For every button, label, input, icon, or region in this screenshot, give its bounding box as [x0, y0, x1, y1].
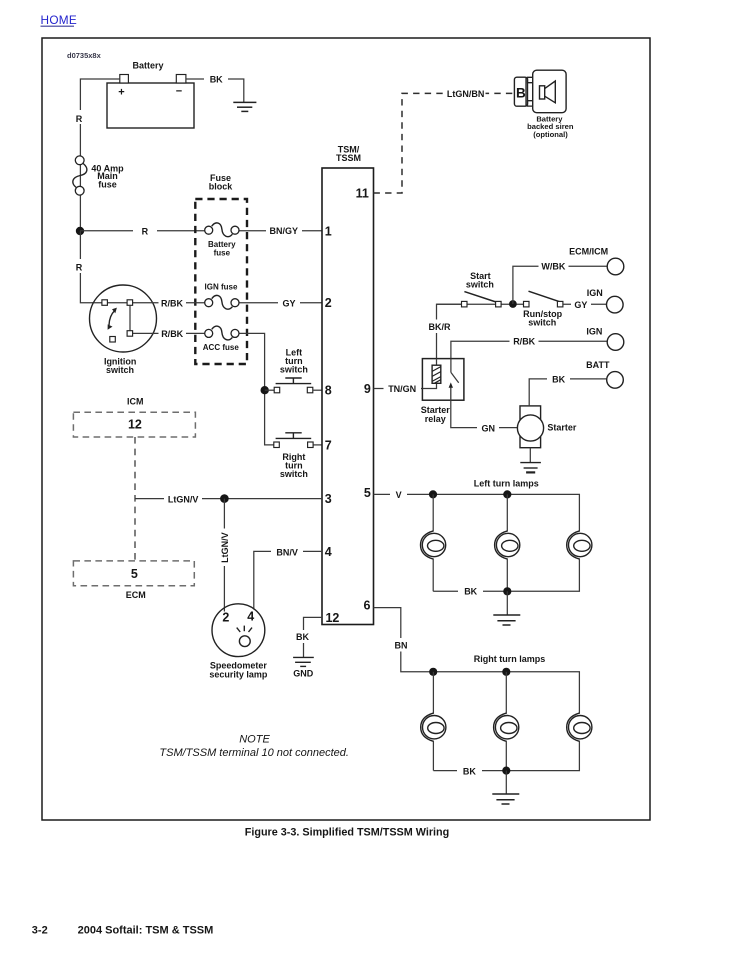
siren speaker icon	[540, 81, 556, 103]
speedometer body	[212, 604, 265, 657]
relay coil	[432, 365, 441, 383]
svg-text:−: −	[176, 86, 182, 98]
svg-text:GY: GY	[574, 300, 587, 310]
wire ACC fuse to turn switches node	[238, 333, 274, 445]
label Battery fuse	[208, 240, 236, 257]
dashed wire pin 11 to siren (LtGN/BN)	[374, 93, 515, 193]
wire drop to right lamp 1	[432, 672, 434, 714]
svg-text:12: 12	[128, 418, 142, 432]
svg-text:6: 6	[364, 598, 371, 612]
label R/BK relay	[510, 335, 539, 349]
left turn lamp 3	[567, 531, 592, 559]
svg-text:ECM: ECM	[126, 590, 146, 600]
wire BN TSM pin 6 to right lamp rail	[374, 608, 434, 672]
svg-text:2: 2	[222, 610, 229, 624]
svg-text:+: +	[118, 87, 124, 99]
svg-text:R: R	[76, 262, 83, 272]
svg-text:11: 11	[356, 186, 369, 200]
starter relay box	[422, 359, 464, 401]
label BK/R	[425, 320, 453, 334]
junction node right rail 2	[502, 668, 510, 676]
diagram border frame	[42, 38, 650, 820]
svg-text:12: 12	[325, 611, 339, 625]
junction node LtGN/V	[220, 494, 229, 503]
security lamp bulb with rays	[237, 626, 252, 647]
fuse F4 ACC fuse	[205, 326, 239, 340]
wire IGN fuse to TSM pin 2 (GY)	[238, 302, 322, 304]
svg-text:3-2: 3-2	[32, 924, 48, 936]
wire BK/R start switch to relay coil	[437, 304, 462, 358]
junction node start/run to W/BK	[509, 300, 517, 308]
ignition switch wire through terminals (R/BK to IGN fuse)	[105, 302, 206, 304]
svg-text:7: 7	[325, 438, 332, 452]
right turn switch terminal right	[308, 442, 314, 448]
wire R/BK relay contact to IGN terminal	[451, 341, 607, 358]
wire R node to ignition switch	[80, 231, 104, 303]
svg-text:LtGN/V: LtGN/V	[220, 532, 230, 563]
right turn switch terminal left	[274, 442, 280, 448]
svg-text:TN/GN: TN/GN	[388, 384, 416, 394]
label BK battery	[204, 73, 228, 86]
right lamp bottom rail BK	[433, 741, 579, 771]
ground starter	[520, 448, 541, 473]
svg-text:R: R	[142, 227, 149, 237]
svg-text:NOTE: NOTE	[239, 734, 270, 746]
svg-text:Left turn lamps: Left turn lamps	[474, 478, 539, 488]
ignition switch internal link B-C	[129, 306, 131, 331]
label V	[390, 488, 407, 501]
svg-text:4: 4	[325, 545, 332, 559]
svg-text:IGN: IGN	[587, 288, 603, 298]
svg-text:ECM/ICM: ECM/ICM	[569, 247, 608, 257]
run/stop switch terminal left	[524, 301, 530, 307]
ignition switch terminal D unconnected	[110, 337, 116, 343]
label LtGN/BN	[444, 87, 486, 101]
svg-text:(optional): (optional)	[533, 130, 568, 139]
terminal circle IGN upper	[607, 296, 624, 313]
svg-text:BK: BK	[464, 587, 477, 597]
ignition switch terminal A	[102, 300, 108, 306]
svg-text:BATT: BATT	[586, 360, 610, 370]
wire TN/GN TSM pin 9 to relay	[374, 388, 423, 390]
start switch terminal left	[462, 301, 468, 307]
wire BK starter to BATT	[529, 379, 606, 406]
starter motor	[517, 406, 543, 448]
svg-text:BN: BN	[395, 640, 408, 650]
label LtGN/V vertical	[218, 529, 231, 567]
svg-text:V: V	[396, 490, 402, 500]
right lamp rail top	[433, 672, 579, 714]
siren connector plug B	[514, 77, 527, 106]
fuse F2 Battery fuse	[205, 223, 239, 237]
svg-text:switch: switch	[280, 469, 308, 479]
junction node left rail 2	[503, 490, 511, 498]
svg-text:3: 3	[325, 492, 332, 506]
svg-text:BK: BK	[463, 767, 476, 777]
label LtGN/V horizontal	[164, 492, 202, 506]
label W/BK	[539, 260, 569, 274]
label Start switch	[466, 271, 494, 290]
fuse F1 40 Amp Main fuse	[73, 156, 87, 195]
svg-text:TSM/TSSM terminal 10 not conne: TSM/TSSM terminal 10 not connected.	[159, 747, 349, 759]
wire GN relay to starter	[451, 400, 518, 427]
svg-text:LtGN/V: LtGN/V	[168, 495, 199, 505]
run/stop switch terminal right	[557, 301, 563, 307]
svg-text:switch: switch	[280, 364, 308, 374]
wire ignition switch C to ACC fuse (R/BK)	[133, 332, 206, 334]
label R lower	[72, 259, 87, 273]
battery + terminal post	[120, 75, 129, 84]
label TN/GN	[384, 382, 422, 395]
svg-text:BN/GY: BN/GY	[270, 226, 299, 236]
dashed wire ICM to ECM	[134, 437, 136, 561]
label Starter relay	[421, 405, 451, 424]
label BN	[391, 638, 411, 652]
left turn switch terminal left	[274, 387, 280, 393]
wire R node to battery fuse	[80, 230, 206, 232]
label R/BK lower	[159, 327, 187, 341]
label GN	[477, 421, 499, 435]
svg-text:BK/R: BK/R	[429, 322, 451, 332]
junction node main fuse to R feed	[76, 227, 84, 235]
svg-text:GN: GN	[482, 423, 496, 433]
left turn lamp 2	[495, 531, 520, 559]
junction node ACC to left turn switch	[261, 386, 269, 394]
junction node right lamps ground	[502, 767, 510, 775]
svg-text:BN/V: BN/V	[276, 547, 298, 557]
label BK right lamps	[457, 764, 482, 778]
wire start switch row	[437, 303, 524, 305]
svg-text:IGN: IGN	[586, 326, 602, 336]
ignition switch body	[90, 285, 157, 352]
label Battery backed siren (optional)	[527, 114, 574, 139]
run/stop switch blade	[529, 291, 560, 302]
wire battery negative to ground (BK)	[186, 79, 244, 102]
svg-text:LtGN/BN: LtGN/BN	[447, 89, 485, 99]
svg-text:HOME: HOME	[41, 13, 78, 27]
svg-text:switch: switch	[106, 365, 134, 375]
wire left turn switch to TSM pin 8	[313, 389, 322, 391]
svg-text:BK: BK	[210, 75, 223, 85]
start switch terminal right	[496, 301, 502, 307]
left lamp rail top	[433, 494, 579, 531]
svg-text:5: 5	[131, 567, 138, 581]
label BK left lamps	[458, 585, 483, 599]
label Speedometer security lamp	[209, 660, 268, 679]
ground battery	[233, 102, 256, 111]
wire LtGN/V ICM tap to TSM pin 3	[135, 498, 322, 500]
ignition switch terminal B	[127, 300, 133, 306]
label Left turn switch	[280, 347, 308, 374]
svg-text:GY: GY	[282, 299, 295, 309]
junction node left lamps ground	[503, 587, 511, 595]
svg-text:2: 2	[325, 296, 332, 310]
label GY	[278, 296, 300, 310]
svg-text:R/BK: R/BK	[513, 337, 535, 347]
ignition switch terminal C	[127, 331, 133, 337]
wire W/BK to ECM/ICM	[513, 266, 607, 304]
junction node left rail 1	[429, 490, 437, 498]
svg-text:R/BK: R/BK	[161, 298, 183, 308]
wire battery fuse to TSM pin 1 (BN/GY)	[238, 230, 322, 232]
svg-text:ICM: ICM	[127, 397, 144, 407]
TSM/TSSM module box	[322, 168, 374, 625]
label Right turn switch	[280, 452, 308, 479]
start switch blade	[464, 292, 497, 303]
wire LtGN/V node to speedometer	[223, 499, 225, 612]
wire V TSM pin 5 to left lamp rail	[374, 493, 434, 495]
HOME link	[41, 13, 78, 27]
stray mark above lamps label	[526, 471, 535, 473]
battery case	[107, 83, 194, 128]
relay armature arrow	[449, 382, 453, 400]
svg-text:B: B	[516, 86, 526, 101]
fuse F3 IGN fuse	[205, 295, 239, 309]
note text	[159, 734, 349, 760]
label BN/V	[271, 545, 303, 559]
svg-text:1: 1	[325, 224, 332, 238]
siren body	[528, 70, 567, 113]
svg-text:switch: switch	[466, 280, 494, 290]
label Ignition switch	[104, 357, 137, 375]
wire right turn switch to TSM pin 7	[313, 444, 322, 446]
svg-text:9: 9	[364, 382, 371, 396]
terminal circle IGN lower	[607, 334, 624, 351]
svg-text:Figure 3-3. Simplified TSM/TSS: Figure 3-3. Simplified TSM/TSSM Wiring	[245, 826, 449, 838]
svg-text:W/BK: W/BK	[541, 261, 565, 271]
TSM/TSSM label	[336, 144, 361, 163]
svg-text:relay: relay	[425, 414, 446, 424]
ground left lamps	[493, 591, 520, 625]
right turn lamp 3	[567, 713, 592, 741]
wire drop to right lamp 2	[505, 672, 507, 714]
ground right lamps	[492, 771, 519, 804]
label BN/GY	[266, 224, 302, 238]
ECM dashed box	[73, 561, 194, 586]
svg-text:BK: BK	[552, 375, 565, 385]
ignition switch rotation arrow	[108, 308, 117, 330]
svg-text:BK: BK	[296, 632, 309, 642]
svg-text:Battery: Battery	[132, 60, 163, 70]
terminal circle BATT	[607, 372, 624, 389]
svg-text:2004 Softail: TSM & TSSM: 2004 Softail: TSM & TSSM	[78, 924, 214, 936]
fuse block dashed box	[195, 199, 247, 364]
svg-text:fuse: fuse	[98, 179, 117, 189]
wire drop to left lamp 2	[506, 494, 508, 531]
svg-text:Starter: Starter	[547, 423, 577, 433]
svg-text:switch: switch	[528, 318, 556, 328]
svg-text:d0735x8x: d0735x8x	[67, 51, 102, 60]
svg-text:fuse: fuse	[214, 248, 231, 257]
right turn lamp 2	[494, 713, 519, 741]
svg-text:IGN fuse: IGN fuse	[205, 283, 238, 292]
fuse block label	[209, 173, 234, 192]
battery polarity marks	[118, 86, 182, 99]
relay coil feed stub	[422, 359, 436, 389]
ICM dashed box	[73, 412, 195, 437]
svg-text:5: 5	[364, 486, 371, 500]
right turn switch pushbutton	[276, 433, 312, 439]
terminal circle ECM/ICM	[607, 258, 624, 275]
relay contact blade	[451, 359, 459, 383]
svg-text:GND: GND	[293, 669, 314, 679]
label 40 Amp Main fuse	[91, 163, 124, 189]
label GY run/stop	[571, 298, 591, 312]
junction node right rail 1	[429, 668, 437, 676]
svg-text:R/BK: R/BK	[161, 329, 183, 339]
label R/BK upper	[159, 296, 187, 310]
svg-text:TSSM: TSSM	[336, 153, 361, 163]
label Run/stop switch	[523, 309, 562, 328]
wire battery positive to main fuse (R)	[80, 79, 119, 229]
wire drop to left lamp 1	[432, 494, 434, 531]
left turn switch terminal right	[307, 387, 313, 393]
wire BK TSM pin 12 to ground	[304, 617, 323, 657]
right turn lamp 1	[421, 713, 446, 741]
svg-text:security lamp: security lamp	[209, 670, 268, 680]
left lamp bottom rail BK	[433, 558, 579, 591]
label R upper	[72, 110, 87, 124]
left turn switch pushbutton	[276, 378, 312, 384]
battery - terminal post	[176, 75, 186, 84]
svg-text:Right turn lamps: Right turn lamps	[474, 654, 546, 664]
wire node to left turn switch	[265, 389, 275, 391]
label R on horizontal wire	[133, 224, 157, 238]
svg-text:4: 4	[247, 610, 254, 624]
svg-text:block: block	[209, 181, 234, 191]
ground GND pin 12	[293, 657, 314, 666]
svg-text:ACC fuse: ACC fuse	[203, 343, 240, 352]
svg-text:R: R	[76, 114, 83, 124]
left turn lamp 1	[421, 531, 446, 559]
label BK starter	[547, 372, 570, 386]
label BK pin 12	[293, 630, 313, 643]
wire GY to IGN terminal	[563, 303, 606, 305]
wire BN/V TSM pin 4 to speedometer	[254, 551, 322, 609]
svg-text:8: 8	[325, 384, 332, 398]
